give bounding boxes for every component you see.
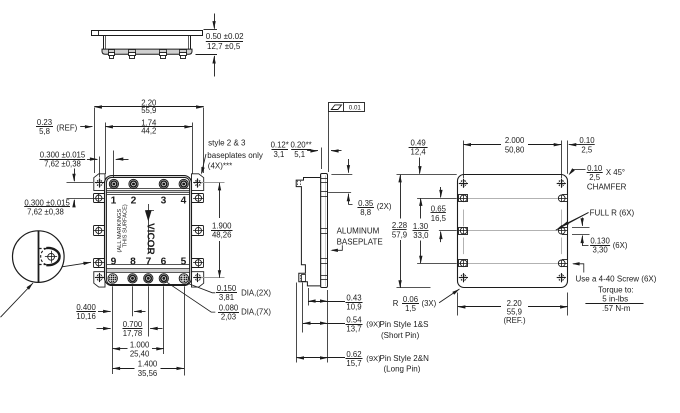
svg-text:6: 6 (161, 257, 167, 268)
svg-text:15,7: 15,7 (346, 359, 361, 368)
svg-text:1.000: 1.000 (130, 340, 150, 349)
svg-text:5,8: 5,8 (39, 127, 50, 136)
svg-text:0.700: 0.700 (123, 320, 143, 329)
svg-text:0.12*: 0.12* (271, 141, 289, 150)
svg-text:0.49: 0.49 (411, 139, 426, 148)
svg-text:7,62 ±0,38: 7,62 ±0,38 (27, 207, 64, 216)
svg-text:2.20: 2.20 (507, 299, 523, 308)
svg-text:0.10: 0.10 (579, 136, 595, 145)
svg-text:2,03: 2,03 (221, 313, 236, 322)
svg-text:16,5: 16,5 (431, 214, 447, 223)
svg-text:BASEPLATE: BASEPLATE (337, 237, 383, 246)
svg-text:1.400: 1.400 (138, 359, 158, 368)
svg-text:Pin Style 2&N: Pin Style 2&N (380, 354, 430, 363)
svg-text:1.900: 1.900 (212, 222, 232, 231)
svg-text:48,26: 48,26 (212, 231, 232, 240)
svg-text:0.54: 0.54 (346, 315, 362, 324)
svg-text:0.150: 0.150 (217, 284, 237, 293)
svg-text:3,30: 3,30 (593, 246, 609, 255)
svg-text:Use a 4-40 Screw (6X): Use a 4-40 Screw (6X) (576, 275, 657, 284)
svg-text:9: 9 (111, 257, 117, 268)
svg-text:(6X): (6X) (613, 241, 628, 250)
svg-text:(4X)***: (4X)*** (208, 162, 232, 171)
svg-text:5: 5 (181, 257, 187, 268)
svg-text:2,5: 2,5 (581, 146, 593, 155)
svg-text:DIA,(7X): DIA,(7X) (241, 307, 271, 316)
svg-text:1.30: 1.30 (413, 222, 429, 231)
svg-text:12,4: 12,4 (411, 148, 427, 157)
svg-text:0.35: 0.35 (358, 199, 374, 208)
svg-text:0.01: 0.01 (349, 104, 362, 111)
svg-text:10,16: 10,16 (76, 312, 96, 321)
svg-text:(2X): (2X) (377, 202, 392, 211)
svg-text:Torque to:: Torque to: (598, 286, 634, 295)
svg-text:44,2: 44,2 (141, 126, 156, 135)
svg-text:Pin Style 1&S: Pin Style 1&S (380, 320, 429, 329)
svg-text:0.43: 0.43 (346, 293, 361, 302)
svg-text:ALUMINUM: ALUMINUM (337, 227, 380, 236)
svg-text:2,5: 2,5 (589, 173, 601, 182)
svg-text:0.080: 0.080 (219, 304, 239, 313)
svg-text:3,81: 3,81 (219, 293, 234, 302)
svg-text:13,7: 13,7 (346, 324, 361, 333)
svg-text:50,80: 50,80 (505, 146, 525, 155)
svg-text:0.50 ±0.02: 0.50 ±0.02 (206, 32, 244, 41)
svg-text:(3X): (3X) (422, 299, 437, 308)
svg-text:7,62 ±0,38: 7,62 ±0,38 (44, 159, 81, 168)
svg-text:2: 2 (131, 195, 137, 206)
svg-text:5 in-lbs: 5 in-lbs (602, 294, 628, 303)
svg-text:0.20**: 0.20** (290, 141, 311, 150)
svg-text:R: R (393, 299, 399, 308)
svg-text:10,9: 10,9 (346, 302, 361, 311)
svg-text:25,40: 25,40 (130, 349, 150, 358)
svg-text:FULL R (6X): FULL R (6X) (590, 208, 635, 217)
svg-text:0.10: 0.10 (587, 164, 603, 173)
svg-text:DIA,(2X): DIA,(2X) (241, 288, 271, 297)
svg-text:1: 1 (111, 195, 117, 206)
svg-text:7: 7 (146, 257, 152, 268)
svg-text:baseplates only: baseplates only (207, 151, 263, 160)
svg-text:THIS SURFACE): THIS SURFACE) (123, 204, 129, 247)
svg-text:0.300 ±0.015: 0.300 ±0.015 (24, 198, 70, 207)
svg-text:3,1: 3,1 (273, 150, 284, 159)
svg-text:0.130: 0.130 (590, 237, 610, 246)
svg-text:12,7 ±0,5: 12,7 ±0,5 (207, 42, 241, 51)
svg-text:style 2 & 3: style 2 & 3 (208, 139, 246, 148)
svg-text:2.000: 2.000 (505, 136, 525, 145)
svg-text:17,78: 17,78 (123, 329, 143, 338)
svg-text:X 45°: X 45° (606, 168, 625, 177)
svg-text:.57 N-m: .57 N-m (602, 304, 631, 313)
svg-text:0.300 ±0.015: 0.300 ±0.015 (40, 151, 86, 160)
svg-text:CHAMFER: CHAMFER (587, 183, 627, 192)
svg-text:(REF.): (REF.) (503, 316, 525, 325)
svg-text:(REF): (REF) (56, 123, 77, 132)
svg-text:0.62: 0.62 (346, 350, 361, 359)
svg-text:(Short Pin): (Short Pin) (381, 331, 420, 340)
svg-text:(Long Pin): (Long Pin) (384, 365, 421, 374)
svg-text:33,0: 33,0 (413, 231, 429, 240)
svg-text:VICOR: VICOR (144, 223, 155, 255)
svg-text:8: 8 (130, 257, 136, 268)
svg-text:1,5: 1,5 (405, 304, 417, 313)
svg-text:8,8: 8,8 (360, 208, 371, 217)
svg-text:0.400: 0.400 (76, 303, 96, 312)
svg-text:35,56: 35,56 (138, 369, 158, 378)
svg-text:4: 4 (181, 195, 187, 206)
svg-text:0.23: 0.23 (37, 118, 52, 127)
svg-text:0.06: 0.06 (403, 295, 418, 304)
svg-text:2.28: 2.28 (392, 221, 407, 230)
svg-text:57,9: 57,9 (392, 230, 407, 239)
svg-text:5,1: 5,1 (294, 150, 305, 159)
svg-text:55,9: 55,9 (141, 106, 156, 115)
svg-text:3: 3 (161, 195, 167, 206)
